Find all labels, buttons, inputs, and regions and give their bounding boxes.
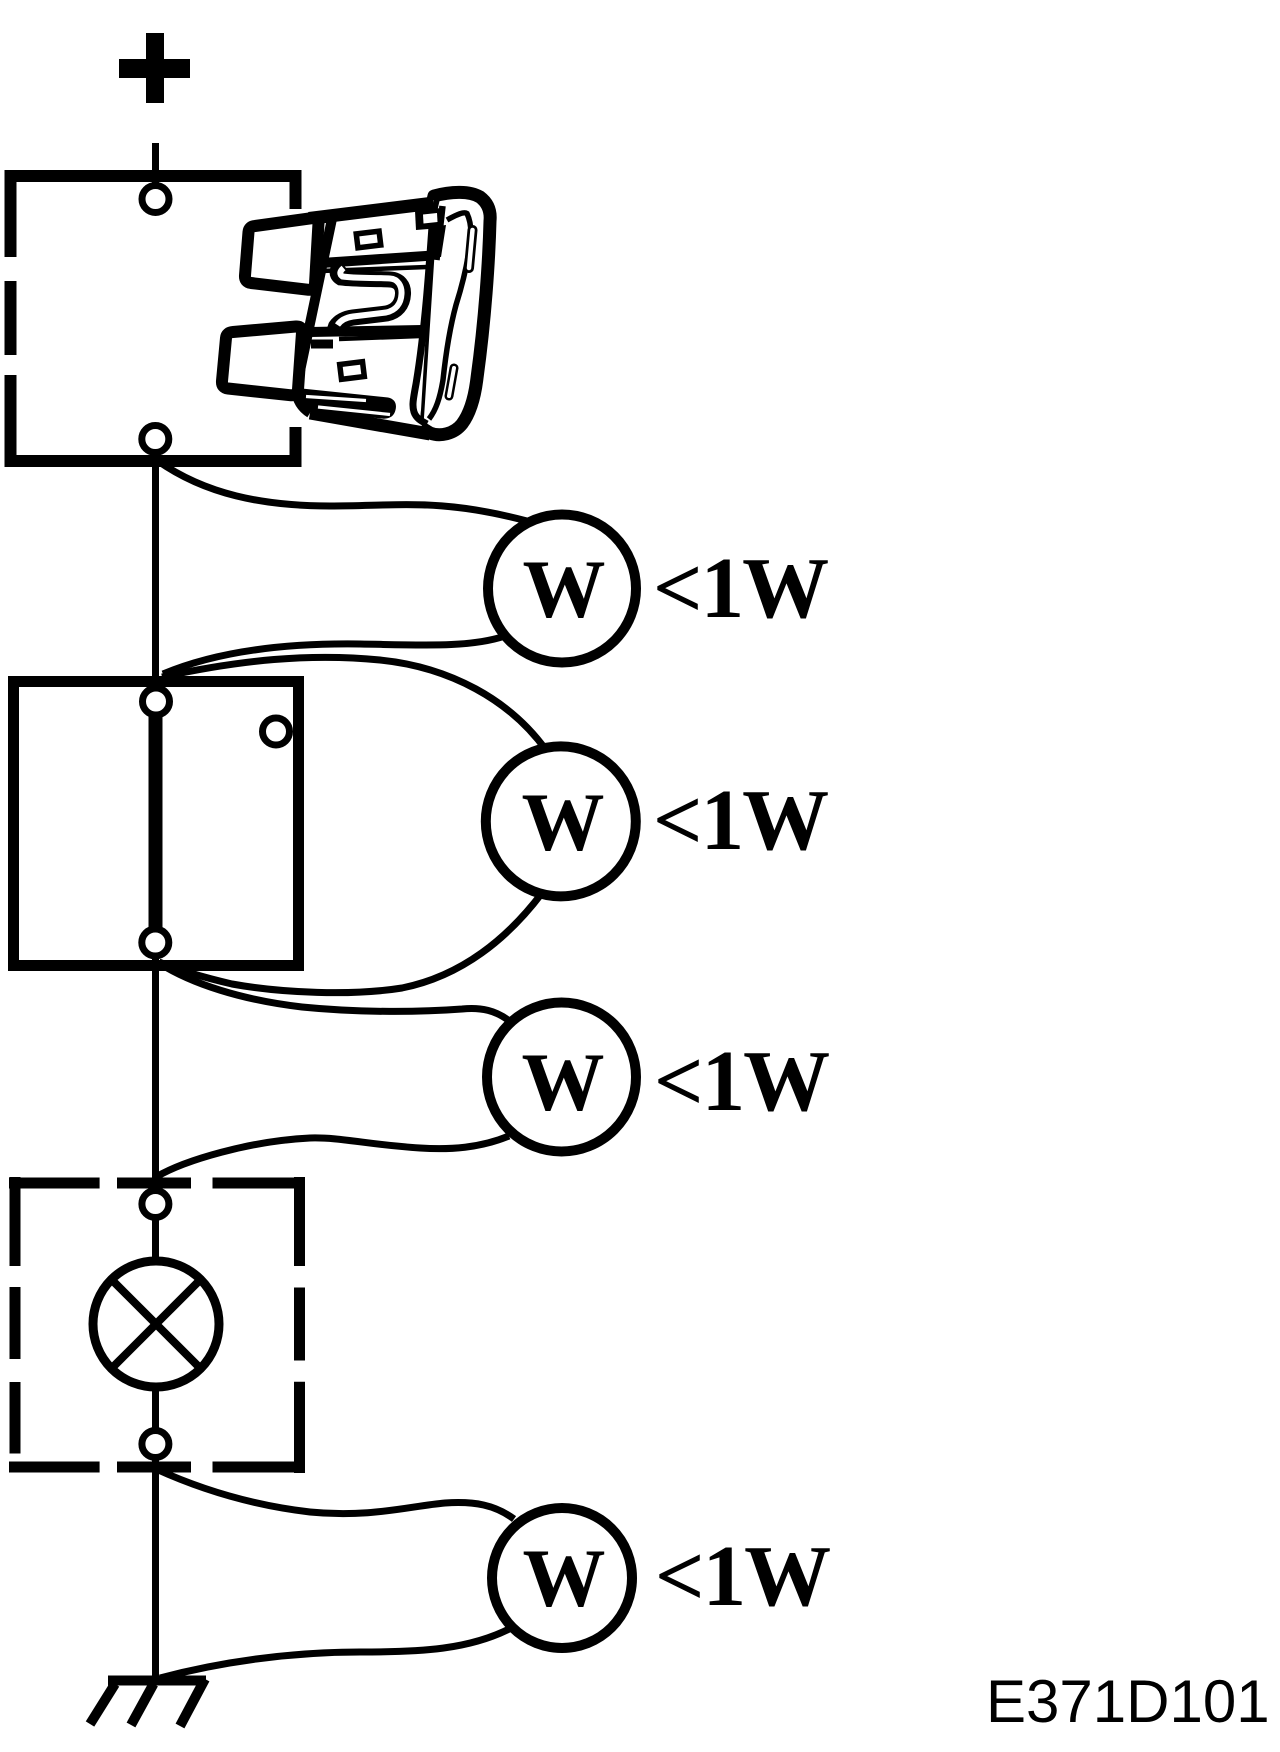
node circle fuse holder bottom (142, 426, 169, 453)
wire lamp box bottom to W4 (156, 1469, 514, 1519)
switch box (14, 682, 299, 966)
fuse body front face (296, 200, 434, 435)
wire switch bottom to W3 (159, 963, 508, 1020)
wire fuse holder bottom to switch (152, 455, 159, 688)
svg-text:<1W: <1W (653, 771, 828, 868)
wire to wattmeter W1 (158, 461, 527, 521)
fuse body rim line (437, 206, 443, 260)
fuse element S-strip (334, 264, 403, 333)
fuse body bottom edge (310, 413, 430, 434)
fuse body top edge (309, 203, 434, 219)
wire switch top to W2 (162, 657, 546, 750)
svg-text:W: W (523, 543, 606, 635)
wire lamp box top to lamp (152, 1217, 159, 1262)
wire W4 to ground (160, 1627, 513, 1678)
fuse blade upper (245, 218, 319, 290)
svg-text:W: W (523, 1532, 606, 1624)
fuse divider lower (310, 330, 422, 332)
fuse body-housing junction (415, 208, 441, 230)
wattmeter W1 (488, 515, 636, 663)
fuse rear housing (417, 192, 490, 434)
battery plus terminal (119, 33, 190, 103)
wire switch bottom to lamp box (152, 956, 159, 1191)
fuse rear slot upper (469, 230, 473, 268)
wire from plus to fuse holder (152, 143, 159, 186)
wire lamp to lamp box bottom (152, 1386, 159, 1431)
wire lamp box bottom to ground (152, 1457, 159, 1684)
node circle lamp box bottom (142, 1431, 169, 1458)
fuse window mark lower (340, 362, 365, 380)
ground symbol (108, 1676, 206, 1686)
wattmeter W2 (486, 746, 636, 896)
lamp box (dashed) (9, 1177, 303, 1473)
switch contact bar (149, 714, 163, 929)
wattmeter W3 (487, 1003, 636, 1152)
fuse rear slot lower (449, 368, 454, 396)
fuse pictorial (222, 192, 490, 435)
svg-text:<1W: <1W (654, 1032, 829, 1129)
node circle switch aux (263, 718, 290, 745)
fuse body left edge (296, 214, 333, 413)
fuse blade lower (222, 326, 302, 395)
svg-text:<1W: <1W (655, 1527, 830, 1624)
svg-text:W: W (522, 1036, 605, 1128)
fuse bottom cap (297, 388, 396, 419)
lamp symbol (93, 1261, 219, 1387)
fuse holder box (dashed) (5, 170, 301, 467)
wattmeter W4 (492, 1508, 632, 1648)
node circle switch bottom (142, 929, 169, 956)
fuse rear housing inner edge (429, 213, 471, 419)
svg-text:W: W (522, 776, 605, 868)
wire W2 to switch bottom (159, 893, 542, 993)
fuse window mark upper (356, 231, 381, 248)
wire W3 to lamp box top (156, 1136, 509, 1177)
svg-text:<1W: <1W (653, 539, 828, 636)
wire from W1 to switch top (163, 636, 505, 674)
node circle fuse holder top (142, 186, 169, 213)
node circle lamp box top (142, 1191, 169, 1218)
svg-text:E371D101: E371D101 (986, 1668, 1270, 1735)
fuse body right edge (413, 205, 434, 424)
fuse divider upper (314, 256, 433, 264)
node circle switch top (143, 688, 170, 715)
